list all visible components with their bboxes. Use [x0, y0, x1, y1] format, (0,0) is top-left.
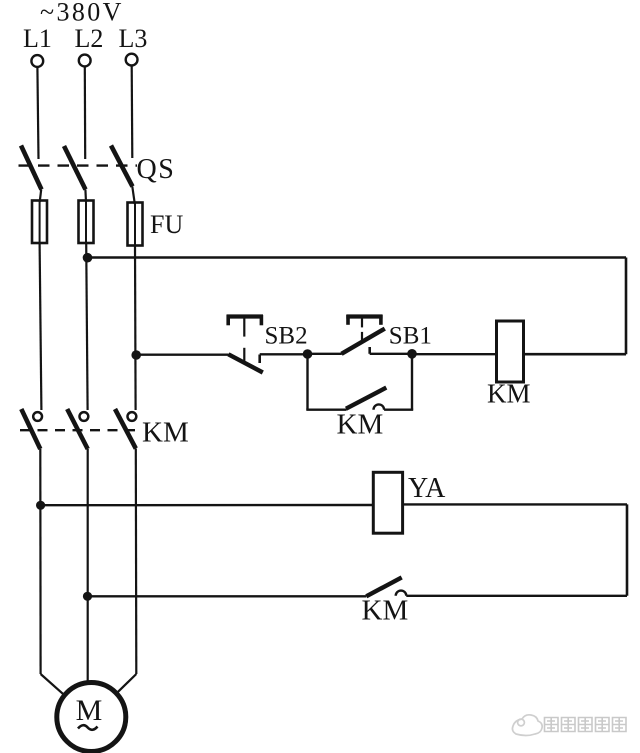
wire L3 FU3 to KM contact — [134, 246, 137, 411]
wire L3 slant into motor — [117, 674, 137, 693]
pushbutton SB1 actuator — [346, 315, 382, 341]
node YA tap on L1 — [36, 501, 45, 510]
wire L1 terminal to QS — [37, 67, 38, 159]
wire node A to SB1 — [308, 353, 342, 355]
contactor KM main pole 3 fixed circle — [127, 412, 136, 421]
wire L2 terminal to QS — [84, 67, 87, 160]
wire coil to right vertical — [524, 353, 627, 356]
wire branch right vertical — [411, 354, 413, 410]
svg-text:L2: L2 — [75, 24, 104, 53]
node B — [407, 349, 417, 359]
motor tilde — [78, 725, 98, 730]
svg-text:SB2: SB2 — [265, 323, 308, 350]
wire right vertical lower — [626, 504, 629, 595]
contactor KM main pole 3 blade — [115, 409, 136, 449]
wire L3 tap to SB2 — [136, 354, 229, 356]
svg-text:L3: L3 — [119, 24, 148, 53]
fuse FU2 — [79, 201, 94, 244]
contact KM bottom arc — [396, 591, 407, 596]
contactor KM main pole 2 blade — [67, 409, 88, 449]
switch QS pole 3 blade — [111, 146, 133, 187]
switch QS pole 2 blade — [64, 146, 86, 190]
coil KM — [497, 321, 524, 382]
coil YA — [373, 472, 402, 533]
contact KM auxiliary arc — [374, 404, 385, 409]
wire QS1 to FU1 — [40, 190, 42, 203]
motor M circle — [57, 683, 126, 752]
pushbutton SB2 actuator — [227, 315, 264, 361]
switch QS pole 1 blade — [21, 146, 42, 190]
terminal L1 — [31, 55, 43, 67]
wire branch left vertical — [306, 354, 308, 410]
wire L2 FU2 to KM contact — [86, 243, 87, 410]
SB1 fixed contact tick — [368, 347, 371, 354]
svg-text:KM: KM — [337, 409, 384, 441]
wire QS2 to FU2 — [84, 190, 87, 203]
fuse FU1 — [32, 201, 47, 244]
svg-text:KM: KM — [142, 417, 189, 449]
wire YA row right — [403, 503, 627, 505]
SB2 fixed contact tick — [258, 355, 261, 364]
terminal L2 — [79, 55, 91, 67]
contactor KM main pole 1 fixed circle — [33, 412, 42, 421]
wire branch bottom left — [306, 409, 346, 411]
node on L2 control tap — [83, 253, 93, 263]
svg-text:L1: L1 — [23, 24, 52, 53]
fuse FU3 — [128, 203, 143, 246]
svg-text:KM: KM — [362, 595, 409, 627]
wire right vertical upper — [625, 258, 628, 355]
svg-text:FU: FU — [150, 210, 183, 239]
contact KM bottom blade — [366, 577, 401, 596]
wire L1 FU1 to KM contact — [40, 243, 42, 410]
svg-text:KM: KM — [487, 379, 531, 409]
pushbutton SB2 blade — [228, 354, 262, 372]
wire L3 terminal to QS — [131, 66, 134, 158]
wire KM bottom row left — [88, 595, 367, 597]
node KM bottom tap on L2 — [83, 592, 92, 601]
wire L1 slant into motor — [41, 674, 64, 695]
KM main mechanical link dashed — [20, 429, 139, 431]
svg-text:~380V: ~380V — [40, 0, 124, 27]
wire node B to coil — [412, 353, 497, 355]
contact KM auxiliary blade — [346, 388, 386, 409]
terminal L3 — [126, 54, 138, 66]
contactor KM main pole 2 fixed circle — [80, 412, 89, 421]
wire QS3 to FU3 — [132, 187, 135, 205]
wire L1 KM to motor — [39, 449, 41, 674]
QS mechanical link dashed — [19, 164, 138, 166]
wire L3 KM to motor — [135, 449, 138, 675]
node on L3 control tap — [131, 350, 141, 360]
wire branch bottom right — [384, 409, 413, 411]
pushbutton SB1 blade — [342, 329, 385, 354]
wire L2 KM to motor — [87, 449, 89, 683]
watermark text — [545, 718, 627, 732]
wire YA row left — [41, 504, 374, 507]
node A — [303, 349, 313, 359]
wire SB2 to node A — [260, 353, 308, 355]
watermark logo — [512, 715, 542, 736]
wire KM bottom row right — [406, 595, 627, 597]
wire top horizontal control — [88, 256, 627, 259]
svg-text:M: M — [76, 694, 103, 727]
svg-text:YA: YA — [408, 473, 446, 504]
wire SB1 to node B — [370, 353, 412, 355]
svg-text:QS: QS — [137, 154, 176, 185]
svg-text:SB1: SB1 — [389, 323, 432, 350]
contactor KM main pole 1 blade — [21, 409, 40, 449]
